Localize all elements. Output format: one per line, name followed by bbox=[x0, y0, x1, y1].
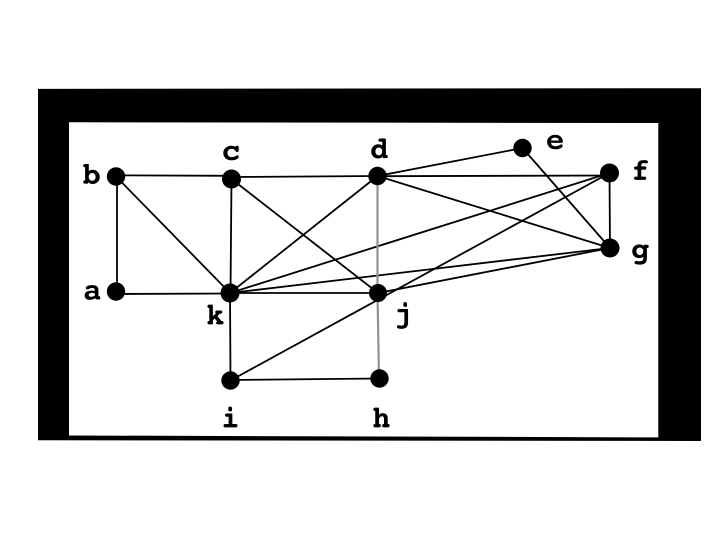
wire a-k bbox=[116, 293, 230, 296]
label a bbox=[85, 285, 101, 300]
wire d-g bbox=[378, 176, 611, 248]
label h bbox=[373, 408, 389, 428]
label g bbox=[632, 244, 649, 264]
label k bbox=[207, 305, 223, 325]
node d bbox=[368, 167, 386, 185]
wire f-g bbox=[609, 173, 612, 248]
wire c-d bbox=[232, 176, 378, 177]
node a bbox=[107, 282, 125, 300]
wire i-f bbox=[231, 173, 610, 381]
inner white panel bbox=[69, 122, 658, 437]
node g bbox=[601, 239, 620, 258]
label f bbox=[634, 160, 648, 180]
node f bbox=[600, 164, 619, 183]
label j bbox=[397, 302, 408, 329]
wire d-j (gray) bbox=[376, 176, 378, 293]
wire j-h (gray) bbox=[378, 293, 380, 379]
wire k-f bbox=[230, 173, 610, 293]
wire b-k bbox=[116, 177, 230, 294]
wire k-j bbox=[230, 292, 378, 294]
label d bbox=[371, 138, 388, 158]
wire j-g bbox=[378, 248, 610, 293]
node k bbox=[221, 284, 240, 303]
wire e-g bbox=[523, 148, 611, 248]
wire b-c bbox=[116, 174, 232, 177]
node h bbox=[370, 369, 388, 387]
label e bbox=[547, 135, 563, 150]
node c bbox=[222, 170, 241, 189]
wire k-d bbox=[230, 176, 378, 293]
wire k-i bbox=[229, 293, 232, 381]
wire c-k bbox=[231, 179, 232, 293]
node b bbox=[107, 167, 125, 185]
label c bbox=[223, 146, 238, 161]
wire d-e bbox=[378, 148, 523, 176]
node j bbox=[369, 284, 387, 302]
outer black frame bbox=[38, 88, 701, 441]
label b bbox=[83, 164, 100, 184]
wire a-b bbox=[116, 177, 118, 293]
wire i-h bbox=[231, 379, 380, 381]
wire k-g bbox=[230, 248, 610, 293]
label i bbox=[224, 407, 238, 428]
node e bbox=[513, 139, 531, 157]
wire d-f bbox=[378, 175, 610, 178]
node i bbox=[221, 371, 239, 389]
wire c-j bbox=[232, 179, 379, 293]
